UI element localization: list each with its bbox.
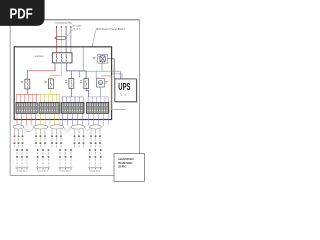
svg-text:PROVISION AREA: PROVISION AREA [118, 161, 133, 165]
svg-text:G.E.1) APARTMENT: G.E.1) APARTMENT [118, 157, 134, 161]
svg-text:Group No.3: Group No.3 [60, 171, 72, 173]
svg-text:UPS: UPS [118, 82, 130, 93]
svg-text:Cond.: Cond. [24, 131, 31, 133]
svg-text:4/C Cable: 4/C Cable [73, 26, 82, 28]
svg-text:Group No.2: Group No.2 [37, 171, 49, 173]
svg-text:KCB 7P 60a: KCB 7P 60a [35, 56, 45, 58]
svg-text:Group No.4: Group No.4 [89, 171, 101, 173]
svg-text:50 sq.m: 50 sq.m [73, 29, 81, 31]
svg-text:PDF: PDF [10, 7, 33, 23]
svg-text:Distribution Panel Board: Distribution Panel Board [96, 28, 126, 31]
svg-text:LIGHTING: LIGHTING [118, 165, 127, 169]
svg-text:Group No.1: Group No.1 [17, 171, 29, 173]
svg-text:Incoming Service Riser: Incoming Service Riser [55, 21, 73, 24]
